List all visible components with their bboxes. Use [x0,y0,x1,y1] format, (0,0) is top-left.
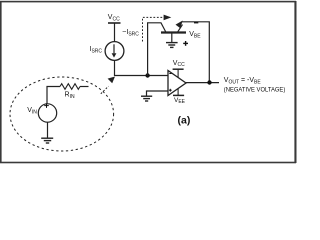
wire VCC rail to current source [114,23,116,42]
equivalence arrow (ellipse to node A) [101,77,115,94]
wire VIN bottom to ground [47,122,49,138]
current source ISRC [105,42,124,61]
wire emitter of Q1 to node B rail [182,22,209,83]
wire current source to node A [114,60,116,76]
svg-text:(NEGATIVE VOLTAGE): (NEGATIVE VOLTAGE) [224,86,285,93]
wire op-amp noninverting input to ground [147,91,169,96]
junction node A (collector tie point) [145,73,149,77]
transistor Q1 (NPN, grounded base) [161,21,186,33]
op-amp inverting input mark [169,73,171,75]
power rail VCC (top) [108,14,121,23]
ground (VIN) [41,138,53,143]
op-amp noninverting input mark [169,89,172,92]
wire VIN top to resistor RIN [47,87,60,104]
power rail VCC (op-amp) [173,60,185,78]
wire collector of Q1 [148,23,166,76]
Norton equivalent source ellipse [10,77,114,151]
ground (op-amp input) [141,96,152,101]
label VBE with polarity marks [183,23,201,46]
svg-text:(a): (a) [178,115,191,127]
junction node B (output node) [207,80,211,84]
wire RIN right lead [80,86,89,88]
op-amp U1 [168,71,186,96]
wire node A to op-amp inverting input [115,75,169,77]
resistor RIN [60,84,80,90]
wire op-amp output to VOUT [186,82,219,84]
ground (transistor base) [166,33,178,48]
current direction annotation ~ISRC [122,15,171,42]
power rail VEE (op-amp) [173,89,186,106]
voltage source VIN [38,103,56,122]
label VOUT [224,77,285,93]
